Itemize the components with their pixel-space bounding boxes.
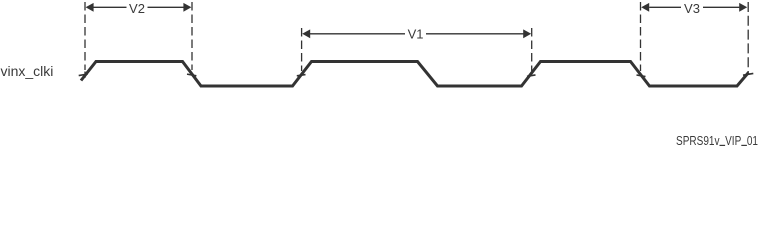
dashed extension line V3 left xyxy=(640,2,642,71)
dimension V1 arrowhead left xyxy=(302,29,310,38)
underscore bar 1 of figure id xyxy=(720,145,726,146)
dimension V3 arrow line left xyxy=(649,6,681,8)
dashed extension line V1 left xyxy=(301,28,303,71)
dimension V1 arrowhead right xyxy=(523,29,531,38)
dashed extension line V3 right xyxy=(747,2,749,74)
svg-text:SPRS91v_VIP_01: SPRS91v_VIP_01 xyxy=(676,133,758,146)
svg-text:V2: V2 xyxy=(129,1,145,16)
dimension V3 arrowhead right xyxy=(739,3,747,12)
dimension V1 arrow line right xyxy=(426,33,524,35)
svg-text:vinx_clki: vinx_clki xyxy=(1,63,54,79)
tick mark on final rising edge (right cut) xyxy=(743,73,753,75)
svg-text:V1: V1 xyxy=(408,26,424,41)
underscore bar 2 of figure id xyxy=(741,145,747,146)
dimension V2 arrowhead right xyxy=(183,3,191,12)
svg-text:V3: V3 xyxy=(684,1,700,16)
dimension V3 arrowhead left xyxy=(641,3,649,12)
dimension V2 arrow line right xyxy=(148,6,185,8)
tick mark on third rising edge xyxy=(527,75,536,76)
wire waveform vinx_clki xyxy=(81,62,749,87)
dashed extension line V2 left xyxy=(84,2,86,70)
dimension V2 arrowhead left xyxy=(86,3,94,12)
tick mark on first rising edge (left cut) xyxy=(79,74,88,76)
dashed extension line V1 right xyxy=(531,28,533,71)
solid bar at left cut cross xyxy=(84,72,86,78)
tick mark on second rising edge xyxy=(297,75,306,76)
tick mark on first falling edge xyxy=(187,74,196,76)
dimension V1 arrow line left xyxy=(310,33,405,35)
dimension V2 arrow line left xyxy=(93,6,127,8)
dashed extension line V2 right xyxy=(191,2,193,70)
tick mark on third falling edge xyxy=(637,75,646,77)
dimension V3 arrow line right xyxy=(703,6,739,8)
